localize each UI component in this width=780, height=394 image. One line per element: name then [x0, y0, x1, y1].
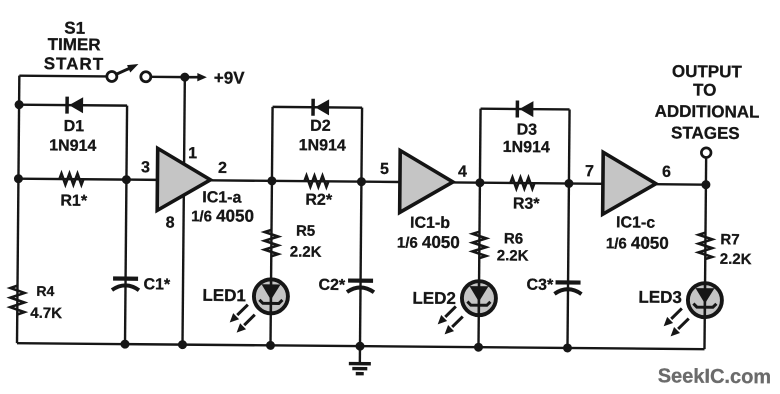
- value 2.2K of R6: [497, 247, 529, 264]
- value 2.2K of R7: [720, 251, 752, 268]
- svg-text:TIMER: TIMER: [48, 35, 101, 54]
- svg-text:7: 7: [585, 163, 594, 180]
- label C3*: [526, 277, 554, 294]
- resistor R6: [472, 232, 486, 259]
- svg-text:4: 4: [458, 164, 467, 181]
- LED2: [462, 281, 496, 315]
- capacitor C1: [112, 278, 139, 290]
- value 4.7K of R4: [30, 305, 62, 322]
- label R3*: [513, 195, 541, 212]
- wire: D3 right leg / C3 branch vertical: [567, 109, 569, 347]
- wire: IC1-c output to output node: [655, 183, 705, 186]
- label IC1-c: [616, 214, 655, 231]
- label R4: [36, 283, 54, 299]
- svg-text:IC1-b: IC1-b: [410, 215, 450, 232]
- junction dot C3 branch / main line: [564, 179, 573, 188]
- svg-text:R6: R6: [504, 230, 523, 247]
- wire: bottom ground rail: [17, 343, 704, 349]
- resistor R5: [264, 230, 278, 257]
- op-amp buffer IC1-a: [157, 148, 211, 210]
- svg-text:D1: D1: [64, 118, 85, 135]
- junction dot at +9V node: [180, 73, 189, 82]
- value 1N914 of D3: [503, 139, 550, 156]
- junction dot C2 branch / main line: [357, 177, 366, 186]
- label LED1: [202, 286, 246, 305]
- wire: IC1-a output to IC1-b input: [209, 180, 399, 182]
- diode D2: [313, 99, 329, 116]
- LED1 light arrows: [230, 305, 255, 333]
- svg-text:2.2K: 2.2K: [720, 251, 752, 268]
- svg-text:2: 2: [218, 160, 227, 177]
- label START: [44, 54, 105, 74]
- svg-text:2.2K: 2.2K: [497, 247, 529, 264]
- value 1/6 4050 of IC1-a: [191, 206, 254, 226]
- junction dot rail/C1: [120, 340, 129, 349]
- label R6: [504, 230, 523, 247]
- label D3: [517, 122, 538, 139]
- pin 8 of IC1-a: [166, 214, 175, 231]
- diode D3: [517, 101, 533, 118]
- junction dot rail/LED2: [474, 343, 483, 352]
- wire: D1/C1 branch vertical: [125, 106, 127, 344]
- svg-text:R5: R5: [296, 223, 315, 240]
- label TIMER: [48, 35, 101, 54]
- wire: D3 loop top: [481, 107, 570, 110]
- junction dot rail/C3: [563, 343, 572, 352]
- junction dot C1 branch / main line: [122, 175, 131, 184]
- resistor R2: [304, 176, 328, 187]
- svg-text:D3: D3: [517, 122, 538, 139]
- svg-text:C3*: C3*: [526, 277, 554, 294]
- node +9V arrow: [187, 73, 207, 82]
- junction dot rail/LED1: [266, 341, 275, 350]
- value 1N914 of D1: [49, 137, 96, 154]
- watermark SeekIC.com: [658, 365, 772, 388]
- node OUTPUT TO ADDITIONAL STAGES: [654, 62, 760, 143]
- wire: D2 left leg / R5-LED1 branch vertical: [270, 107, 272, 345]
- svg-text:C2*: C2*: [318, 277, 346, 294]
- pin 6 of IC1-c: [662, 164, 671, 181]
- label R7: [720, 231, 739, 248]
- LED3: [688, 283, 722, 317]
- wire: main line R1 segment: [18, 179, 157, 180]
- LED1: [254, 279, 288, 313]
- diode D1: [67, 97, 83, 114]
- svg-text:TO: TO: [693, 81, 716, 100]
- label IC1-a: [202, 189, 241, 206]
- svg-text:R1*: R1*: [60, 193, 88, 210]
- wire: D2 loop top: [273, 106, 362, 109]
- label C2*: [318, 277, 346, 294]
- value 1/6 4050 of IC1-c: [606, 233, 669, 253]
- value 1N914 of D2: [299, 137, 346, 154]
- pin 2 of IC1-a: [218, 160, 227, 177]
- label LED3: [638, 288, 682, 307]
- op-amp buffer IC1-b: [400, 150, 454, 212]
- junction dot IC1-a output node: [267, 176, 276, 185]
- svg-text:3: 3: [141, 159, 150, 176]
- svg-text:STAGES: STAGES: [671, 123, 740, 143]
- svg-text:ADDITIONAL: ADDITIONAL: [655, 102, 760, 122]
- label IC1-b: [410, 215, 450, 232]
- svg-text:LED1: LED1: [202, 286, 246, 305]
- pin 7 of IC1-c: [585, 163, 594, 180]
- wire: switch pole to +9V junction: [151, 76, 185, 79]
- resistor R4: [10, 286, 24, 315]
- svg-text:LED2: LED2: [412, 289, 456, 308]
- svg-text:R7: R7: [720, 231, 739, 248]
- wire: top rail from left wire to switch S1: [19, 74, 106, 77]
- svg-text:1: 1: [188, 145, 197, 162]
- value 1/6 4050 of IC1-b: [397, 232, 460, 252]
- resistor R7: [698, 233, 712, 260]
- label S1: [64, 19, 85, 38]
- svg-text:1/6 4050: 1/6 4050: [606, 233, 669, 253]
- ground: [349, 346, 371, 374]
- label R5: [296, 223, 315, 240]
- label R2*: [305, 192, 333, 209]
- switch S1: [107, 64, 151, 82]
- svg-text:IC1-c: IC1-c: [616, 214, 655, 231]
- svg-text:1/6 4050: 1/6 4050: [191, 206, 254, 226]
- svg-text:LED3: LED3: [638, 288, 682, 307]
- svg-text:8: 8: [166, 214, 175, 231]
- svg-text:4.7K: 4.7K: [30, 305, 62, 322]
- op-amp buffer IC1-c: [603, 152, 657, 214]
- svg-text:R3*: R3*: [513, 195, 541, 212]
- junction dot IC1-b output node: [475, 178, 484, 187]
- svg-text:1N914: 1N914: [299, 137, 346, 154]
- svg-text:2.2K: 2.2K: [290, 244, 322, 261]
- svg-text:OUTPUT: OUTPUT: [672, 62, 743, 82]
- wire: D2 right leg / C2 branch vertical: [360, 108, 362, 346]
- junction dot rail/power vertical: [178, 340, 187, 349]
- svg-text:R2*: R2*: [305, 192, 333, 209]
- pin 3 of IC1-a: [141, 159, 150, 176]
- svg-text:5: 5: [380, 161, 389, 178]
- LED3 light arrows: [664, 308, 689, 336]
- wire: D1 loop top: [19, 103, 127, 106]
- wire: left vertical bus: [17, 76, 19, 343]
- svg-text:C1*: C1*: [143, 276, 171, 293]
- LED2 light arrows: [438, 306, 463, 334]
- resistor R1: [59, 174, 83, 185]
- label +9V: [214, 68, 246, 87]
- svg-text:START: START: [44, 54, 105, 74]
- wire: output node vertical (terminal to R7/LED3 to ground rail): [704, 157, 706, 349]
- pin 1 of IC1-a: [188, 145, 197, 162]
- value 2.2K of R5: [290, 244, 322, 261]
- junction dot left bus / D1 top: [15, 100, 24, 109]
- label R1*: [60, 193, 88, 210]
- pin 5 of IC1-b: [380, 161, 389, 178]
- svg-text:IC1-a: IC1-a: [202, 189, 241, 206]
- wire: +9V power vertical to IC1 pin1/pin8: [182, 77, 184, 344]
- svg-text:1N914: 1N914: [503, 139, 550, 156]
- junction dot left bus / main line: [14, 174, 23, 183]
- svg-text:+9V: +9V: [214, 68, 246, 87]
- svg-text:R4: R4: [36, 283, 54, 299]
- wire: IC1-b output to IC1-c input: [452, 182, 602, 183]
- label C1*: [143, 276, 171, 293]
- svg-text:1/6 4050: 1/6 4050: [397, 232, 460, 252]
- capacitor C2: [347, 281, 374, 293]
- junction dot output node: [701, 180, 710, 189]
- pin 4 of IC1-b: [458, 164, 467, 181]
- svg-text:SeekIC.com: SeekIC.com: [658, 365, 772, 388]
- wire: D3 left leg / R6-LED2 branch vertical: [478, 109, 480, 347]
- junction dot rail/ground: [355, 342, 364, 351]
- resistor R3: [510, 177, 534, 188]
- svg-text:6: 6: [662, 164, 671, 181]
- label D1: [64, 118, 85, 135]
- svg-text:D2: D2: [310, 118, 331, 135]
- label D2: [310, 118, 331, 135]
- output terminal node: [701, 148, 711, 158]
- label LED2: [412, 289, 456, 308]
- svg-text:1N914: 1N914: [49, 137, 96, 154]
- capacitor C3: [554, 282, 581, 294]
